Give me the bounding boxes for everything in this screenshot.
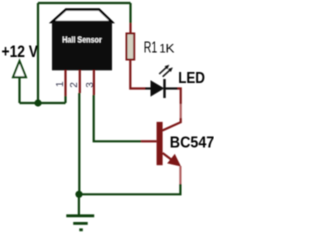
- transistor Q1 base bar: [157, 122, 163, 165]
- svg-text:BC547: BC547: [170, 134, 214, 151]
- transistor Q1 emitter lead: [163, 153, 177, 164]
- wire collector light segment: [180, 104, 182, 118]
- LED light arrow 2: [163, 67, 173, 76]
- wire from +12V arrow to pin 1: [20, 102, 66, 104]
- wire pin 2 down to ground rail: [78, 93, 80, 194]
- resistor R1 bottom lead to LED: [130, 60, 145, 89]
- wire resistor top feed: [129, 3, 131, 23]
- LED D1 cathode bar: [163, 79, 165, 98]
- svg-text:3: 3: [85, 82, 96, 88]
- svg-text:2: 2: [69, 82, 80, 88]
- LED D1 cathode wire: [165, 87, 178, 89]
- svg-text:Hall Sensor: Hall Sensor: [62, 35, 102, 45]
- +12V supply arrow symbol: [13, 61, 26, 103]
- wire V+ rail left vertical: [37, 3, 39, 103]
- transistor Q1 emitter arrowhead: [167, 154, 181, 167]
- ground symbol: [66, 194, 94, 230]
- resistor R1 body: [127, 34, 135, 60]
- svg-text:1: 1: [55, 81, 66, 87]
- hall sensor U1 body: [52, 10, 112, 71]
- svg-text:+12 V: +12 V: [2, 42, 39, 61]
- pin 1 lead: [64, 70, 66, 96]
- svg-text:R1: R1: [144, 40, 157, 57]
- pin 2 lead: [79, 70, 81, 93]
- LED light arrow 1: [159, 65, 169, 74]
- wire pin 1 to V+ rail: [64, 96, 66, 103]
- wire emitter to ground rail: [79, 184, 180, 194]
- wire emitter down: [179, 166, 181, 184]
- svg-text:LED: LED: [178, 70, 205, 87]
- pin 3 lead: [93, 70, 95, 95]
- transistor Q1 base lead: [141, 140, 157, 142]
- LED D1 anode wire: [145, 87, 151, 89]
- wire pin 3 to transistor base: [94, 95, 141, 141]
- wire V+ rail top horizontal: [38, 2, 131, 4]
- wire LED cathode to collector: [178, 89, 181, 105]
- node junction dot at ground rail: [75, 191, 82, 198]
- LED D1 triangle: [151, 80, 165, 96]
- svg-text:K: K: [166, 44, 175, 56]
- transistor Q1 collector lead: [162, 118, 180, 131]
- resistor R1 top lead: [129, 23, 131, 34]
- node junction dot at V+ rail: [34, 99, 41, 106]
